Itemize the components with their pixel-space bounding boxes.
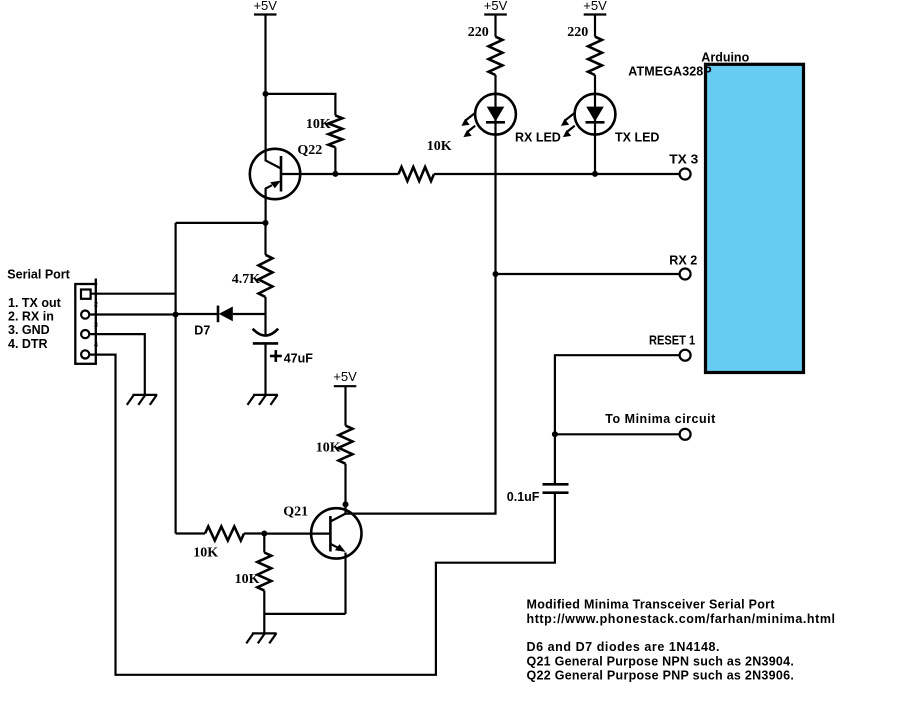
capacitor C 47uF polarized (253, 329, 314, 395)
wire pin1 TX out (91, 293, 176, 295)
svg-text:+5V: +5V (253, 0, 277, 13)
pin 2 pad (81, 311, 89, 319)
node A junction dot (263, 91, 269, 97)
svg-text:http://www.phonestack.com/farh: http://www.phonestack.com/farhan/minima.… (527, 612, 836, 626)
wire TX LED down to TX line (594, 135, 596, 174)
svg-text:D7: D7 (194, 324, 210, 338)
wire emitter to 10K bottom (264, 613, 345, 615)
svg-text:Q21 General Purpose NPN such a: Q21 General Purpose NPN such as 2N3904. (527, 654, 794, 668)
svg-text:4. DTR: 4. DTR (8, 337, 48, 351)
wire node E to minima terminal (555, 433, 680, 435)
node I junction dot (TX 3) (592, 171, 598, 177)
svg-text:+5V: +5V (583, 0, 607, 13)
wire node C to left vertical (176, 222, 266, 224)
wire 0.1uF top to reset node (554, 434, 556, 484)
node B junction dot (332, 171, 338, 177)
wire pin4 DTR long bottom run (89, 355, 555, 675)
wire collector node to RX line (346, 274, 496, 514)
svg-text:Arduino: Arduino (701, 51, 749, 65)
resistor R 10K (Q21 base to ground) (235, 534, 272, 614)
svg-text:10K: 10K (235, 572, 260, 587)
power +5V supply 1 (Q22 collector rail) (253, 0, 277, 15)
svg-text:ATMEGA328P: ATMEGA328P (628, 65, 711, 79)
LED RX (461, 94, 560, 145)
wire TX 3 (434, 173, 680, 175)
resistor R 10K (Q22 base-collector) (306, 116, 343, 148)
svg-text:220: 220 (567, 25, 588, 40)
node E junction dot (to-minima) (552, 431, 558, 437)
wire +5V to 220 (594, 15, 596, 37)
svg-text:10K: 10K (427, 139, 452, 154)
svg-text:3. GND: 3. GND (8, 323, 50, 337)
wire 220 to LED (494, 75, 496, 95)
svg-text:TX LED: TX LED (615, 131, 659, 145)
terminal RX 2 (680, 269, 691, 280)
ground (pin3) (127, 395, 157, 405)
svg-text:RESET 1: RESET 1 (649, 334, 695, 348)
svg-text:10K: 10K (316, 441, 341, 456)
svg-text:0.1uF: 0.1uF (507, 490, 540, 504)
pin 1 square pad (81, 290, 91, 299)
terminal To Minima (680, 429, 691, 440)
diode D7 (176, 306, 266, 338)
svg-text:10K: 10K (306, 117, 331, 132)
transistor Q22 PNP (250, 94, 336, 223)
terminal RESET 1 (680, 350, 691, 361)
wire pin3 GND to ground (89, 334, 145, 395)
resistor R 10K (Q21 collector) (316, 426, 353, 464)
resistor R 4.7K (232, 223, 273, 336)
wire 10K bottom to node B (334, 147, 336, 174)
note text block (527, 598, 836, 683)
transistor Q21 NPN (264, 505, 361, 614)
node H junction dot (RX 2) (493, 271, 499, 277)
wire 10K bottom to collector node (344, 464, 346, 514)
svg-text:3: 3 (94, 322, 98, 329)
wire +5V down to 10K (344, 386, 346, 425)
LED TX (561, 94, 660, 145)
wire +5V down to node A (264, 15, 266, 94)
pin 3 pad (81, 330, 89, 338)
wire node A to 10K top (266, 94, 336, 116)
power +5V supply 2 (RX LED) (484, 0, 508, 15)
wire node E up to RESET terminal (555, 355, 680, 434)
svg-text:Modified Minima Transceiver Se: Modified Minima Transceiver Serial Port (527, 598, 776, 612)
svg-text:47uF: 47uF (284, 352, 314, 366)
svg-text:Q22: Q22 (297, 143, 322, 158)
power +5V supply 3 (TX LED) (583, 0, 607, 15)
svg-text:RX 2: RX 2 (669, 254, 697, 268)
wire RX LED down to RX line (494, 135, 496, 274)
svg-text:+5V: +5V (333, 369, 357, 384)
svg-text:+5V: +5V (484, 0, 508, 13)
resistor R 10K (TX line series) (335, 139, 451, 181)
power +5V supply 4 (Q21 collector rail) (333, 369, 357, 386)
svg-text:To Minima circuit: To Minima circuit (605, 412, 716, 426)
node G junction dot (Q21 base divider) (261, 531, 267, 537)
ground (Q21) (246, 633, 276, 643)
terminal TX 3 (680, 169, 691, 180)
svg-text:2. RX in: 2. RX in (8, 310, 54, 324)
wire left vertical bus (175, 223, 177, 534)
svg-text:220: 220 (468, 25, 489, 40)
svg-text:10K: 10K (193, 545, 218, 560)
node D junction dot (RX-in / D7) (173, 312, 179, 318)
IC Arduino ATMEGA328P block (628, 51, 803, 373)
wire 220 to LED (594, 75, 596, 95)
svg-text:2: 2 (94, 302, 98, 309)
wire +5V to 220 (494, 15, 496, 37)
node C junction dot (Q22 emitter / TX-out node) (263, 220, 269, 226)
svg-text:4.7K: 4.7K (232, 272, 261, 287)
connector J1 serial port body (75, 279, 96, 364)
resistor R 10K (Q21 base series) (176, 527, 265, 561)
svg-text:Serial Port: Serial Port (7, 268, 70, 282)
svg-text:RX LED: RX LED (515, 131, 561, 145)
svg-text:4: 4 (94, 342, 98, 349)
svg-text:1. TX out: 1. TX out (8, 296, 62, 310)
wire RX 2 (496, 273, 681, 275)
node F junction dot (Q21 collector) (343, 501, 349, 507)
svg-text:1: 1 (94, 280, 98, 287)
resistor R 220 (RX LED) (468, 25, 503, 75)
svg-text:TX 3: TX 3 (669, 153, 698, 167)
pin 4 pad (81, 350, 89, 358)
capacitor C 0.1uF (507, 484, 569, 504)
resistor R 220 (TX LED) (567, 25, 602, 75)
svg-text:Q22 General Purpose PNP such a: Q22 General Purpose PNP such as 2N3906. (527, 669, 794, 683)
wire pin2 RX in (89, 313, 175, 315)
ground (47uF) (248, 395, 278, 405)
svg-text:Q21: Q21 (283, 505, 308, 520)
wire 10K bottom to ground (263, 614, 265, 634)
svg-text:D6 and D7 diodes are 1N4148.: D6 and D7 diodes are 1N4148. (527, 640, 720, 654)
